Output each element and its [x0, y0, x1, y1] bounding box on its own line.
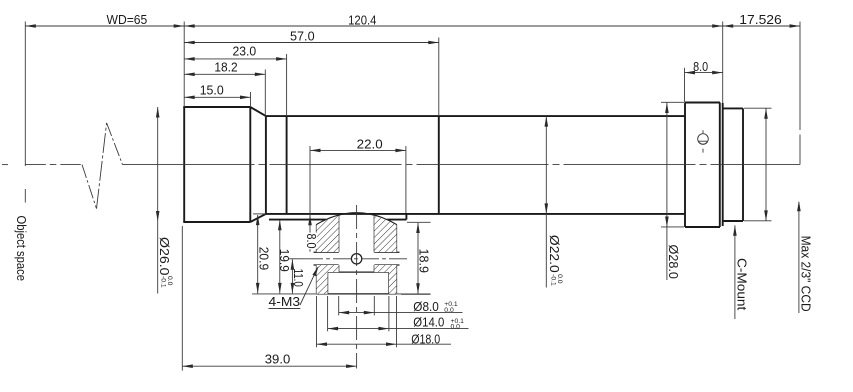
svg-text:20.9: 20.9	[257, 247, 272, 271]
svg-text:Ø18.0: Ø18.0	[411, 332, 440, 347]
svg-text:Ø8.0: Ø8.0	[413, 299, 439, 314]
svg-text:Ø22.0: Ø22.0	[547, 235, 562, 273]
svg-text:Ø28.0: Ø28.0	[666, 245, 681, 279]
svg-text:8.0: 8.0	[693, 59, 708, 74]
svg-text:17.526: 17.526	[739, 12, 782, 27]
svg-text:15.0: 15.0	[200, 83, 224, 98]
svg-text:39.0: 39.0	[265, 352, 291, 367]
svg-text:Max 2/3" CCD: Max 2/3" CCD	[799, 236, 814, 312]
svg-text:Object space: Object space	[14, 216, 29, 282]
svg-text:8.0: 8.0	[304, 234, 319, 249]
svg-text:18.9: 18.9	[417, 249, 432, 274]
svg-text:4-M3: 4-M3	[269, 294, 301, 309]
svg-text:-0.1: -0.1	[550, 274, 557, 286]
svg-text:18.2: 18.2	[214, 60, 237, 75]
svg-text:Ø26.0: Ø26.0	[157, 237, 172, 276]
svg-text:23.0: 23.0	[232, 44, 256, 59]
svg-text:C-Mount: C-Mount	[735, 258, 750, 311]
svg-text:11.0: 11.0	[291, 269, 306, 287]
svg-text:57.0: 57.0	[290, 29, 315, 44]
svg-text:0.0: 0.0	[444, 307, 454, 314]
svg-text:22.0: 22.0	[357, 137, 383, 152]
svg-text:-0.1: -0.1	[159, 276, 166, 288]
svg-text:19.9: 19.9	[277, 249, 292, 272]
svg-text:Ø14.0: Ø14.0	[413, 314, 444, 329]
svg-text:WD=65: WD=65	[107, 12, 148, 27]
svg-text:0.0: 0.0	[451, 324, 461, 331]
svg-text:120.4: 120.4	[348, 13, 376, 28]
